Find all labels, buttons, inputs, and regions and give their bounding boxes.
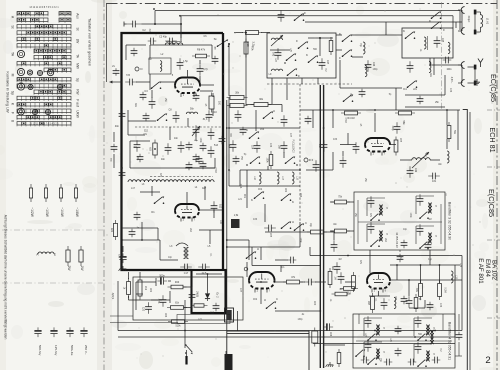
row wire below bandfilter 3: [348, 255, 462, 257]
wire: [125, 45, 127, 60]
junction: [319, 109, 321, 111]
box wire: [151, 299, 170, 301]
capacitor C4a: [131, 48, 138, 57]
fuse Si1: [312, 328, 318, 347]
wire: [229, 185, 240, 187]
keyboard roller contact: [45, 109, 50, 114]
wire: [310, 255, 348, 257]
link wire: [315, 281, 326, 283]
coil L4: [186, 112, 197, 114]
link wire: [324, 231, 334, 233]
wire: [169, 127, 171, 140]
drop wire: [385, 22, 387, 35]
svg-text:470k: 470k: [251, 46, 253, 52]
svg-text:13 12 11 10 9 8 7 6 5 4 3 2 1: 13 12 11 10 9 8 7 6 5 4 3 2 1: [29, 124, 59, 126]
svg-text:0,5M: 0,5M: [344, 117, 346, 122]
Bandfilter 4 wire: [414, 343, 432, 345]
wire: [347, 230, 354, 232]
svg-text:50n: 50n: [190, 108, 195, 111]
chassis box inner line: [227, 333, 309, 335]
svg-text:R22: R22: [284, 188, 286, 193]
wire: [399, 250, 401, 252]
drop wire into tuner: [180, 24, 182, 41]
svg-text:0,5M: 0,5M: [214, 167, 216, 172]
svg-text:~1/3W: ~1/3W: [45, 207, 49, 218]
bus drop wire: [452, 16, 454, 28]
wire: [149, 74, 151, 90]
wire: [211, 45, 213, 58]
capacitor C14a: [196, 156, 203, 165]
resistor R44 47k: [283, 280, 303, 284]
svg-text:1W: 1W: [80, 266, 84, 272]
wire: [409, 307, 425, 309]
junction: [420, 264, 422, 266]
junction: [389, 279, 391, 281]
wire: [151, 186, 153, 196]
antenna connector at y=10: [461, 7, 464, 14]
junction: [184, 330, 186, 332]
svg-text:F: F: [443, 28, 445, 32]
drop wire: [333, 232, 335, 240]
grid wire: [340, 144, 356, 146]
svg-text:4,7p: 4,7p: [203, 68, 208, 71]
connector link wire: [461, 10, 463, 31]
switch bank row: [59, 12, 71, 15]
wire: [455, 22, 457, 28]
AM oscillator box outline: [133, 277, 243, 320]
variable coil L11: [412, 158, 430, 160]
switch bank row: [17, 12, 48, 15]
Bandfilter 3 box outline: [354, 192, 445, 250]
svg-text:R8 47k: R8 47k: [197, 49, 206, 52]
wire: [122, 239, 160, 241]
capacitor C75: [432, 357, 441, 364]
wire: [128, 296, 130, 300]
capacitor C15: [211, 201, 218, 213]
trimmer capacitor C11: [193, 125, 200, 137]
svg-text:C64: C64: [329, 332, 331, 337]
resistor R16 510k: [168, 320, 188, 324]
electrolytic capacitor C22: [119, 253, 126, 263]
transformer lamination block: [225, 354, 233, 370]
capacitor C7b: [111, 144, 118, 153]
row wire: [265, 231, 310, 233]
wire: [378, 291, 380, 296]
ground wire: [468, 82, 475, 84]
diode Gr2: [205, 291, 210, 301]
wire: [430, 64, 462, 66]
capacitor C16a: [134, 212, 141, 221]
svg-text:~1/4W: ~1/4W: [60, 207, 64, 218]
svg-text:B12: B12: [219, 204, 222, 209]
resistor R29: [227, 104, 248, 108]
svg-text:D 6: D 6: [309, 158, 314, 162]
link wire: [275, 281, 286, 283]
switch contact F3: [342, 49, 353, 57]
fold line: [2, 229, 103, 231]
svg-text:MW: MW: [76, 63, 80, 69]
svg-text:C3 40p: C3 40p: [159, 36, 167, 39]
trimmer C11 arrow: [192, 126, 200, 136]
dashed section divider D2: [135, 126, 222, 128]
top link wire: [352, 21, 462, 23]
wire: [157, 228, 159, 240]
wire: [155, 278, 157, 286]
svg-text:C23: C23: [142, 307, 144, 312]
capacitor C51: [281, 115, 288, 127]
svg-text:13 12 11 10 9 8 7 6 5 4 3 2 1: 13 12 11 10 9 8 7 6 5 4 3 2 1: [29, 7, 59, 9]
wire: [260, 247, 262, 260]
resistor R28 30k: [227, 96, 248, 100]
box wire: [183, 286, 192, 288]
capacitor C57a: [288, 257, 297, 264]
row wire right: [390, 279, 462, 281]
capacitor C66: [397, 254, 404, 263]
wire: [234, 32, 243, 34]
svg-text:PLC(L)1BC3: PLC(L)1BC3: [292, 139, 294, 153]
svg-text:C34: C34: [269, 143, 271, 148]
svg-text:St: St: [214, 37, 217, 41]
wire: [271, 84, 273, 104]
capacitor C73: [384, 359, 393, 366]
junction: [332, 109, 334, 111]
plug pin bar: [474, 30, 477, 35]
switch bank row: [34, 55, 71, 58]
wire: [246, 104, 254, 106]
coil L20: [394, 297, 396, 308]
Bandfilter 3 switch contact: [419, 241, 429, 249]
drop wire: [342, 151, 344, 156]
junction: [374, 109, 376, 111]
capacitor C59a: [427, 302, 434, 311]
svg-text:81,3: 81,3: [203, 119, 208, 121]
legend resistor ~1/2W: [29, 184, 32, 202]
switch bank row: [17, 37, 71, 40]
legend resistor ~1/4W: [59, 184, 62, 202]
wire: [275, 259, 288, 261]
capacitor C65: [401, 296, 408, 305]
svg-text:100k: 100k: [199, 138, 201, 144]
coupling loop wire: [176, 243, 188, 246]
mains bus wire 1: [118, 330, 462, 332]
junction: [299, 169, 301, 171]
svg-text:C54: C54: [260, 129, 265, 131]
keyboard roller contact: [57, 84, 62, 89]
switch contact F1: [298, 41, 309, 49]
legend capacitor 250 V~: [80, 327, 87, 337]
connector pin 2: [225, 357, 227, 366]
wire: [113, 132, 115, 142]
drop wire: [439, 265, 441, 283]
link wire: [430, 159, 440, 161]
junction: [207, 273, 209, 275]
UKW tuner box right edge: [222, 33, 224, 271]
svg-text:K: K: [339, 32, 341, 36]
wire: [187, 118, 189, 127]
wire: [455, 355, 462, 357]
svg-text:K: K: [429, 19, 431, 23]
svg-text:U: U: [257, 247, 259, 251]
svg-text:R47: R47: [367, 301, 369, 306]
capacitor C37: [425, 242, 432, 251]
capacitor C13a: [443, 57, 452, 64]
capacitor C16b: [129, 229, 136, 238]
capacitor C12A: [137, 154, 144, 163]
link wire: [336, 34, 342, 36]
resistor R11: [127, 278, 131, 298]
Bandfilter 4 coil pair: [426, 325, 430, 335]
capacitor C9A 10n: [178, 141, 185, 153]
resistor R41 75k: [331, 200, 350, 204]
Bandfilter 4 coil pair: [376, 349, 380, 359]
variable core arrow L8: [271, 35, 283, 46]
wire: [369, 295, 390, 297]
legend capacitor 125-Sty: [50, 327, 57, 337]
svg-text:250 V~: 250 V~: [84, 345, 88, 355]
wire: [228, 128, 230, 186]
wire: [129, 299, 163, 301]
svg-text:513: 513: [214, 144, 219, 147]
capacitor C7a: [149, 97, 156, 109]
row wire: [130, 167, 215, 169]
wire: [358, 314, 360, 324]
coil L2 core: [166, 41, 182, 43]
wire: [395, 88, 397, 110]
svg-text:R12: R12: [144, 286, 146, 291]
diode feed wire: [207, 274, 209, 291]
switch bank row: [44, 68, 71, 71]
page divider line: [103, 0, 105, 370]
link wire: [352, 34, 402, 36]
row wire: [229, 127, 300, 129]
capacitor C47: [319, 58, 326, 70]
tuner left rail: [121, 178, 123, 270]
variometer core dashed line: [150, 176, 213, 178]
wire: [369, 250, 371, 273]
coil L19: [292, 172, 294, 184]
svg-text:1M: 1M: [428, 219, 431, 221]
wire: [319, 38, 321, 56]
wire: [214, 158, 216, 168]
Bandfilter 3 capacitor: [368, 222, 375, 234]
svg-text:22,5: 22,5: [202, 272, 207, 275]
drop wire: [446, 139, 448, 149]
capacitor C49: [407, 166, 414, 178]
svg-text:32 055-04.30: 32 055-04.30: [395, 232, 399, 248]
switch contact U3: [266, 301, 277, 309]
dashed section divider: [267, 83, 352, 85]
svg-text:180k: 180k: [266, 158, 268, 164]
svg-text:U: U: [292, 220, 294, 224]
wire: [228, 44, 230, 96]
capacitor C48: [235, 110, 242, 122]
capacitor C18: [198, 264, 210, 271]
capacitor C31: [428, 173, 440, 180]
resistor R4 1M: [341, 111, 361, 115]
capacitor C59: [381, 298, 388, 310]
svg-text:4,5V~: 4,5V~: [450, 77, 453, 84]
capacitor C8: [173, 111, 180, 123]
svg-text:R35: R35: [269, 233, 271, 238]
Bandfilter 4 box outline: [353, 314, 455, 368]
Bandfilter 4 wire: [364, 317, 382, 319]
chassis box outline: [227, 331, 309, 370]
Bandfilter 4 wire: [413, 344, 415, 362]
capacitor C44a: [359, 89, 366, 98]
bus wire B+: [155, 10, 460, 12]
row wire: [405, 94, 445, 96]
resistor R40: [168, 285, 187, 289]
row wire: [306, 169, 333, 171]
chassis ground bottom: [326, 362, 334, 367]
connector pin 1: [185, 356, 187, 365]
box wire: [136, 293, 143, 295]
resistor R46: [352, 272, 356, 292]
column wire: [246, 170, 248, 208]
wire: [340, 87, 402, 89]
wire: [339, 60, 341, 88]
capacitor C30 100p: [394, 122, 401, 134]
Bandfilter 4 wire: [364, 341, 382, 343]
switch contact K5: [308, 55, 319, 63]
keyboard roller contact: [18, 108, 25, 115]
capacitor C50: [240, 127, 247, 136]
test point D6: [304, 158, 308, 162]
svg-text:EC(C)85: EC(C)85: [489, 74, 498, 102]
wire: [429, 58, 431, 65]
wire: [281, 105, 283, 113]
switch contact K7: [405, 31, 416, 39]
svg-text:N10: N10: [210, 313, 215, 315]
Bandfilter 4 switch contact: [417, 333, 427, 341]
capacitor C14: [208, 146, 215, 158]
switch box 2 outline: [402, 28, 453, 58]
wire: [312, 110, 314, 128]
triode V1 EC(C)85 a: [175, 78, 200, 86]
junction: [154, 23, 156, 25]
plug link wire: [474, 67, 476, 83]
resistor R43: [307, 230, 327, 234]
resistor R6 59k: [447, 122, 451, 142]
resistor R30 30k: [251, 103, 272, 107]
schematic frame right edge inner: [469, 112, 471, 370]
switch contact S1: [217, 39, 230, 47]
svg-text:7n5: 7n5: [126, 74, 131, 77]
junction: [226, 127, 228, 129]
Bandfilter 4 transformer: [430, 330, 434, 344]
svg-text:Sp: Sp: [76, 78, 80, 82]
switch contact M2: [285, 156, 296, 164]
svg-text:1M(B): 1M(B): [196, 291, 198, 297]
bandfilter can outline: [149, 58, 171, 74]
switch bank row: [17, 96, 71, 99]
capacitor C45: [434, 36, 441, 48]
column wire: [228, 98, 230, 117]
switch bank row: [17, 103, 71, 106]
Bandfilter 3 wire: [416, 195, 434, 197]
Bandfilter 4 wire: [413, 318, 415, 336]
terminal strip outline: [177, 315, 230, 324]
svg-text:C60: C60: [313, 301, 315, 306]
coil L12: [365, 65, 367, 76]
svg-text:D: D: [140, 67, 142, 71]
svg-text:R24: R24: [164, 313, 166, 318]
wire: [480, 12, 482, 15]
switch contact mains: [185, 344, 193, 354]
capacitor C8b: [143, 113, 150, 122]
chassis box left edge: [226, 331, 228, 370]
wire: [357, 200, 359, 244]
resistor R45: [328, 268, 332, 288]
keyboard roller contact: [32, 109, 37, 114]
svg-text:E(C)C85: E(C)C85: [487, 189, 496, 217]
drop wire: [237, 311, 239, 331]
bus drop wire: [154, 11, 156, 25]
plug pin bar: [474, 81, 477, 86]
wire: [267, 166, 269, 170]
Bandfilter 4 coil pair: [376, 325, 380, 335]
capacitor C3a: [148, 38, 157, 45]
electrolytic C24 500n: [157, 277, 167, 284]
wire: [113, 154, 115, 168]
svg-text:F: F: [304, 11, 306, 15]
svg-text:~1/2W: ~1/2W: [30, 207, 34, 218]
fold line: [2, 282, 103, 284]
anode wire: [390, 144, 396, 146]
switch contact M1: [250, 156, 261, 164]
drop wire: [408, 280, 410, 296]
junction: [319, 310, 321, 312]
svg-text:C33: C33: [253, 219, 258, 221]
resistor R10 tap dot: [154, 148, 156, 150]
switch bank row: [59, 18, 71, 21]
antenna coil wire: [477, 31, 481, 33]
switch contact K6: [342, 34, 353, 42]
FM antenna input arrow: [110, 81, 123, 83]
capacitor C7 40n: [119, 109, 126, 121]
capacitor C60: [406, 296, 413, 308]
vertical bus wire 3: [226, 100, 228, 331]
dashed net wire: [299, 84, 301, 222]
capacitor C13D: [186, 162, 193, 171]
svg-text:0,2M: 0,2M: [443, 287, 445, 292]
capacitor C4 40n: [165, 38, 177, 45]
junction: [374, 330, 376, 332]
link wire: [400, 159, 412, 161]
junction: [323, 231, 325, 233]
capacitor C8A: [134, 140, 141, 152]
Bandfilter 3 wire: [367, 223, 385, 225]
switch contact K2: [254, 191, 265, 199]
svg-text:C47: C47: [326, 60, 328, 65]
wire: [128, 272, 130, 279]
switch contact K1: [249, 131, 260, 139]
row wire right 2: [390, 264, 460, 266]
heptode V3 ECH81: [365, 138, 390, 145]
keyboard roller contact: [17, 83, 24, 90]
antenna wire: [468, 66, 475, 68]
svg-text:Kontakte in Stellung LW: Kontakte in Stellung LW: [6, 71, 11, 113]
row wire: [128, 120, 156, 122]
switch bank row: [17, 62, 71, 65]
svg-text:500-Sty: 500-Sty: [38, 345, 42, 356]
capacitor C17 22.5: [180, 264, 192, 271]
svg-text:UKW: UKW: [76, 110, 80, 117]
resistor R1 1k5: [113, 220, 117, 240]
svg-text:R40: R40: [175, 282, 180, 284]
capacitor C23 4.7: [145, 302, 152, 314]
svg-text:St: St: [76, 27, 80, 30]
